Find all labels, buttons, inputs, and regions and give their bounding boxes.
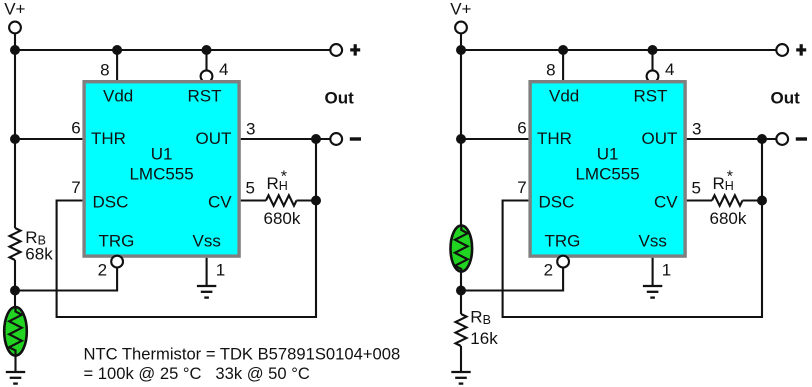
label - (right) xyxy=(796,137,807,140)
terminal + output (right) xyxy=(776,44,788,56)
svg-text:V+: V+ xyxy=(4,0,25,19)
thermistor (right) xyxy=(451,226,473,272)
terminal + output (left) xyxy=(330,44,342,56)
svg-text:2: 2 xyxy=(544,261,553,280)
wire thermistor to RB (right) xyxy=(460,271,462,314)
resistor RH 680k (left) xyxy=(266,195,297,205)
svg-text:DSC: DSC xyxy=(539,192,575,211)
svg-text:4: 4 xyxy=(219,60,228,79)
ground thermistor (left) xyxy=(6,372,25,384)
svg-text:Vdd: Vdd xyxy=(103,86,133,105)
wire pin 4 RST (left) xyxy=(205,50,207,70)
svg-text:16k: 16k xyxy=(470,329,498,348)
svg-text:3: 3 xyxy=(692,120,701,139)
ground RB (right) xyxy=(451,372,470,384)
svg-text:RB: RB xyxy=(470,308,491,328)
junction OUT node (left) xyxy=(311,134,321,144)
svg-text:U1: U1 xyxy=(597,145,619,164)
junction rail pin8 (left) xyxy=(112,45,122,55)
junction rail pin8 (right) xyxy=(558,45,568,55)
wire V+ vertical (right) xyxy=(460,33,462,226)
svg-text:680k: 680k xyxy=(264,209,301,228)
junction rail pin4 (left) xyxy=(202,45,212,55)
wire pin 8 Vdd (left) xyxy=(116,50,118,80)
junction rail pin4 (right) xyxy=(648,45,658,55)
wire TRG pin 2 (left) xyxy=(15,268,117,291)
wire V+ vertical (left) xyxy=(14,33,16,228)
wire CV pin 5 (right) xyxy=(687,199,712,201)
thermistor (left) xyxy=(4,307,27,356)
svg-text:2: 2 xyxy=(98,261,107,280)
svg-text:1: 1 xyxy=(662,261,671,280)
svg-text:DSC: DSC xyxy=(93,192,129,211)
wire pin 4 RST (right) xyxy=(651,50,653,70)
pin 2 TRG terminal circle (left) xyxy=(111,256,123,268)
wire Vss pin 1 (left) xyxy=(206,258,208,286)
IC U1 LMC555 body (left) xyxy=(82,80,240,258)
label + (right) xyxy=(796,44,806,55)
wire RB to junction (left) xyxy=(14,260,16,307)
svg-text:RST: RST xyxy=(188,86,222,105)
svg-text:THR: THR xyxy=(91,129,126,148)
svg-text:CV: CV xyxy=(654,192,678,211)
svg-text:TRG: TRG xyxy=(99,232,135,251)
svg-text:THR: THR xyxy=(537,129,572,148)
svg-text:U1: U1 xyxy=(151,145,173,164)
wire OUT pin 3 (left) xyxy=(241,138,330,140)
junction thermistor/RB (right) xyxy=(456,286,466,296)
wire THR pin 6 (left) xyxy=(15,138,82,140)
pin 4 RST terminal circle (right) xyxy=(647,70,659,82)
wire TRG pin 2 (right) xyxy=(461,268,563,291)
svg-text:7: 7 xyxy=(71,178,80,197)
svg-text:LMC555: LMC555 xyxy=(129,165,193,184)
terminal V+ (left) xyxy=(9,22,21,34)
svg-text:6: 6 xyxy=(71,119,80,138)
junction THR main (left) xyxy=(10,134,20,144)
wire DSC feedback (right) xyxy=(503,139,762,317)
svg-text:680k: 680k xyxy=(710,209,747,228)
wire THR pin 6 (right) xyxy=(461,138,528,140)
svg-text:1: 1 xyxy=(216,261,225,280)
label - (left) xyxy=(350,137,361,140)
left circuit xyxy=(4,0,361,384)
junction THR main (right) xyxy=(456,134,466,144)
svg-text:68k: 68k xyxy=(25,245,53,264)
svg-text:8: 8 xyxy=(100,61,109,80)
svg-text:CV: CV xyxy=(208,192,232,211)
svg-text:5: 5 xyxy=(692,179,701,198)
wire Vss pin 1 (right) xyxy=(652,258,654,286)
svg-text:NTC Thermistor = TDK B57891S01: NTC Thermistor = TDK B57891S0104+008 xyxy=(84,345,401,364)
wire thermistor to ground (left) xyxy=(14,355,16,372)
wire V+ rail (left) xyxy=(15,49,330,51)
pin 4 RST terminal circle (left) xyxy=(201,70,213,82)
wire OUT pin 3 (right) xyxy=(687,138,776,140)
svg-text:6: 6 xyxy=(517,119,526,138)
svg-text:OUT: OUT xyxy=(196,129,232,148)
ground Vss (right) xyxy=(643,286,662,298)
wire CV pin 5 (left) xyxy=(241,199,266,201)
IC U1 LMC555 body (right) xyxy=(528,80,686,258)
svg-text:Out: Out xyxy=(325,89,355,108)
wire V+ rail (right) xyxy=(461,49,776,51)
terminal - output (left) xyxy=(330,133,342,145)
svg-text:*: * xyxy=(281,169,287,186)
resistor RH 680k (right) xyxy=(712,195,743,205)
svg-text:Vss: Vss xyxy=(639,232,667,251)
junction CV node (left) xyxy=(311,196,321,206)
resistor RB 68k (left) xyxy=(10,228,21,260)
svg-text:V+: V+ xyxy=(450,0,471,19)
wire RB to ground (right) xyxy=(460,346,462,372)
label + (left) xyxy=(350,44,360,55)
junction V+ rail left (right) xyxy=(456,45,466,55)
wire DSC feedback (left) xyxy=(57,139,316,317)
junction RB/thermistor (left) xyxy=(10,286,20,296)
wire pin 8 Vdd (right) xyxy=(562,50,564,80)
junction V+ rail left (left) xyxy=(10,45,20,55)
svg-text:7: 7 xyxy=(517,178,526,197)
terminal V+ (right) xyxy=(455,22,467,34)
ground Vss (left) xyxy=(197,286,216,298)
svg-text:= 100k @ 25 °C 33k @ 50 °C: = 100k @ 25 °C 33k @ 50 °C xyxy=(84,364,310,383)
svg-text:OUT: OUT xyxy=(642,129,678,148)
terminal - output (right) xyxy=(776,133,788,145)
svg-text:3: 3 xyxy=(246,120,255,139)
svg-text:Vss: Vss xyxy=(193,232,221,251)
svg-text:Out: Out xyxy=(771,89,801,108)
junction CV node (right) xyxy=(757,196,767,206)
svg-text:Vdd: Vdd xyxy=(549,86,579,105)
svg-text:LMC555: LMC555 xyxy=(575,165,639,184)
resistor RB 16k (right) xyxy=(456,314,467,346)
pin 2 TRG terminal circle (right) xyxy=(557,256,569,268)
svg-text:4: 4 xyxy=(665,60,674,79)
right circuit xyxy=(450,0,807,384)
svg-text:8: 8 xyxy=(546,61,555,80)
svg-text:*: * xyxy=(727,169,733,186)
junction OUT node (right) xyxy=(757,134,767,144)
svg-text:RST: RST xyxy=(634,86,668,105)
svg-text:TRG: TRG xyxy=(545,232,581,251)
svg-text:5: 5 xyxy=(246,179,255,198)
